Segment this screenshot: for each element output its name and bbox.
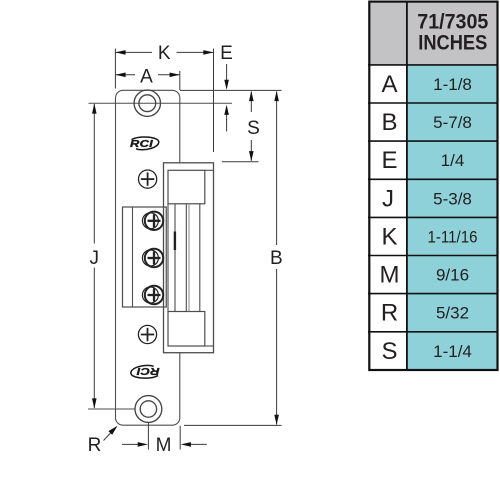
thin screw upper xyxy=(139,170,157,188)
spec table xyxy=(368,2,498,371)
faceplate outline xyxy=(116,90,180,425)
svg-text:1-1/4: 1-1/4 xyxy=(433,342,472,361)
svg-text:M: M xyxy=(380,262,400,289)
R leader line with arrowhead xyxy=(104,432,113,441)
J arrowhead top xyxy=(92,103,97,113)
svg-text:S: S xyxy=(381,338,397,365)
bottom edge extension line (plate bottom) xyxy=(184,424,282,426)
svg-text:5-3/8: 5-3/8 xyxy=(433,189,472,208)
keeper line 4 xyxy=(188,204,190,312)
E upper arrow (points down) xyxy=(226,64,228,82)
value column background xyxy=(407,65,497,370)
top screw hole outer ring xyxy=(134,90,160,116)
S extension line bottom xyxy=(222,161,259,163)
hinge inner line xyxy=(132,207,134,307)
dimension line K xyxy=(115,51,213,53)
table outer border xyxy=(369,2,497,370)
svg-text:S: S xyxy=(247,118,260,139)
B arrowhead bottom xyxy=(274,415,279,425)
svg-text:J: J xyxy=(89,248,99,269)
strike top shelf line xyxy=(205,169,214,171)
M left arrow (points right) xyxy=(122,443,140,445)
A arrowhead left xyxy=(115,73,125,78)
RCI logo top xyxy=(130,137,159,150)
svg-text:A: A xyxy=(140,66,153,87)
svg-text:R: R xyxy=(88,435,102,456)
svg-text:INCHES: INCHES xyxy=(418,31,487,55)
svg-text:B: B xyxy=(270,248,283,269)
svg-text:1-1/8: 1-1/8 xyxy=(433,75,472,94)
table header background xyxy=(369,2,498,65)
bold terminal screw 1 xyxy=(142,212,163,230)
keeper line 1 xyxy=(167,204,169,312)
E lower arrow (points up) xyxy=(226,112,228,132)
strike bottom cap xyxy=(168,312,205,347)
S arrowhead top xyxy=(249,91,254,101)
dimension line A xyxy=(115,74,179,76)
keeper line 2 xyxy=(174,204,176,312)
svg-text:E: E xyxy=(220,43,233,64)
strike top cap xyxy=(168,170,205,204)
S arrowhead bottom xyxy=(249,151,254,161)
svg-text:K: K xyxy=(381,224,397,251)
dimension A extension line right xyxy=(179,71,181,90)
hinge body rectangle xyxy=(123,207,167,307)
svg-text:M: M xyxy=(156,435,172,456)
dimension line S xyxy=(250,92,252,161)
keeper dark edge segment xyxy=(174,232,176,251)
dimension line J xyxy=(93,104,95,408)
svg-text:B: B xyxy=(381,109,397,136)
svg-text:K: K xyxy=(158,43,171,64)
strike bottom shelf line xyxy=(205,345,214,347)
dimension K extension line right xyxy=(213,49,215,153)
svg-text:1/4: 1/4 xyxy=(441,151,465,170)
J arrowhead bottom xyxy=(92,398,97,408)
M extension line right xyxy=(179,426,181,450)
svg-text:1-11/16: 1-11/16 xyxy=(428,228,478,247)
keeper line 3 xyxy=(185,204,187,312)
svg-text:5/32: 5/32 xyxy=(436,304,469,323)
RCI logo bottom (rotated) xyxy=(131,365,160,378)
dimension line B xyxy=(276,92,278,425)
svg-text:9/16: 9/16 xyxy=(436,266,469,285)
M extension line left (from bottom hole) xyxy=(147,423,149,450)
dimension K extension line left xyxy=(114,49,116,89)
B arrowhead top xyxy=(274,91,279,101)
extension line through bottom hole center xyxy=(88,408,136,410)
svg-text:5-7/8: 5-7/8 xyxy=(433,113,472,132)
svg-text:A: A xyxy=(381,71,397,98)
K arrowhead right xyxy=(203,50,213,55)
A arrowhead right xyxy=(170,73,180,78)
svg-text:E: E xyxy=(381,147,397,174)
M right arrow (points left) xyxy=(189,443,207,445)
strike body outer rectangle xyxy=(164,163,214,353)
top edge extension line (plate top) xyxy=(180,89,282,91)
bold terminal screw 2 xyxy=(142,249,163,267)
bottom screw hole inner ring xyxy=(140,401,156,417)
keeper line 5 xyxy=(199,204,201,312)
top screw hole inner ring xyxy=(139,95,156,112)
K arrowhead left xyxy=(115,50,125,55)
thin screw lower xyxy=(138,325,156,343)
column divider xyxy=(406,2,408,371)
svg-text:R: R xyxy=(381,300,398,327)
letter column background xyxy=(370,65,407,370)
bottom screw hole outer ring xyxy=(135,396,162,423)
extension line through top hole center xyxy=(89,102,233,104)
svg-text:J: J xyxy=(382,185,394,212)
bold terminal screw 3 xyxy=(142,286,163,304)
row lines xyxy=(368,65,498,332)
